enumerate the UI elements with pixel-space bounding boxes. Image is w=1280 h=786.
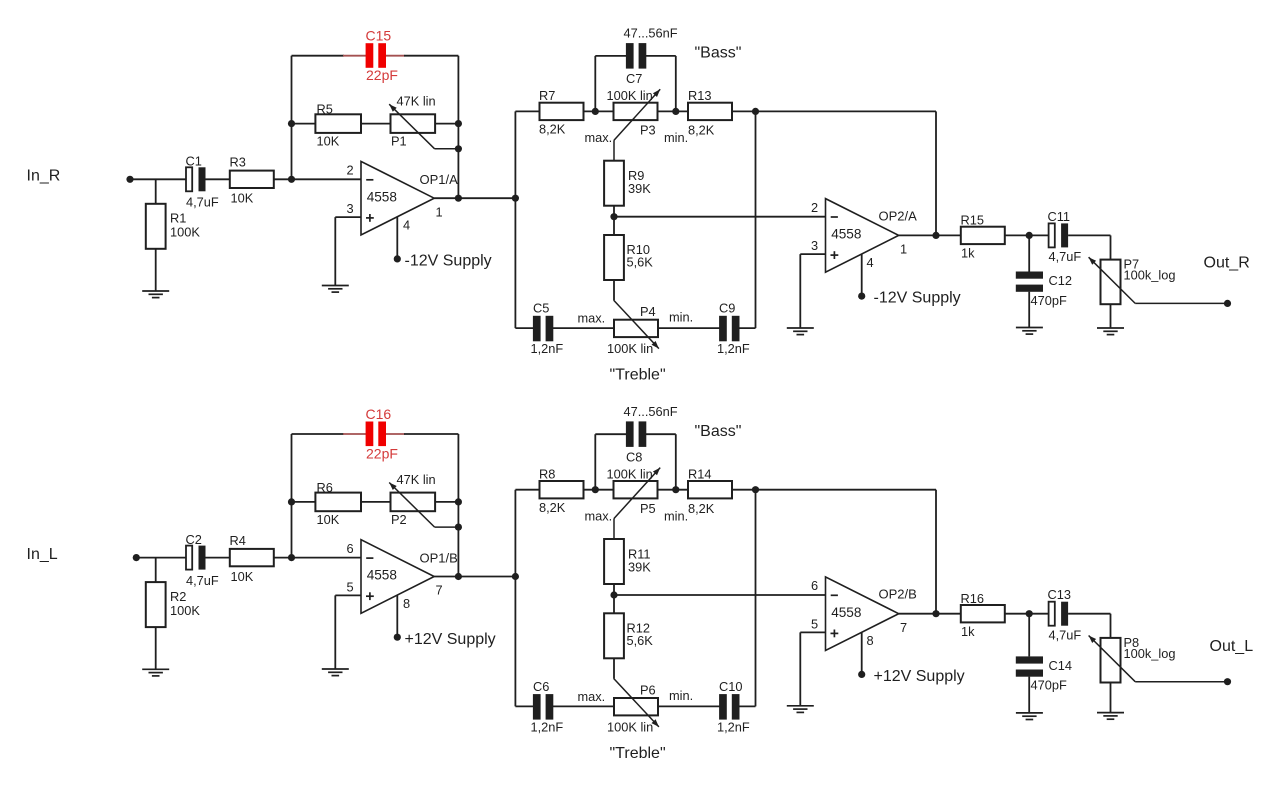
svg-text:4558: 4558 [831,227,861,242]
svg-text:8,2K: 8,2K [539,500,566,515]
svg-text:C9: C9 [719,301,735,316]
svg-text:4: 4 [867,255,874,270]
svg-text:R5: R5 [317,102,333,117]
svg-text:5,6K: 5,6K [627,255,654,270]
svg-text:4,7uF: 4,7uF [186,195,219,210]
svg-text:4558: 4558 [367,189,397,204]
svg-text:39K: 39K [628,559,651,574]
svg-text:100K lin: 100K lin [607,341,653,356]
svg-text:5: 5 [811,616,818,631]
svg-text:In_R: In_R [27,168,61,185]
svg-text:R8: R8 [539,466,555,481]
svg-text:47...56nF: 47...56nF [624,26,678,41]
svg-text:C12: C12 [1049,273,1072,288]
svg-text:OP2/A: OP2/A [879,208,918,223]
svg-text:22pF: 22pF [366,445,398,461]
svg-text:R4: R4 [230,533,246,548]
svg-text:min.: min. [664,508,688,523]
svg-text:3: 3 [347,201,354,216]
svg-text:22pF: 22pF [366,67,398,83]
svg-text:100K lin: 100K lin [607,466,653,481]
svg-text:"Bass": "Bass" [695,423,742,440]
svg-text:C14: C14 [1049,658,1072,673]
svg-text:1,2nF: 1,2nF [531,341,564,356]
svg-text:470pF: 470pF [1031,678,1067,693]
svg-text:4558: 4558 [831,605,861,620]
svg-text:+12V Supply: +12V Supply [874,668,965,685]
svg-text:39K: 39K [628,181,651,196]
svg-text:1,2nF: 1,2nF [717,719,750,734]
svg-text:8,2K: 8,2K [688,123,715,138]
svg-text:4,7uF: 4,7uF [186,573,219,588]
svg-text:4,7uF: 4,7uF [1049,249,1082,264]
svg-text:C10: C10 [719,679,742,694]
svg-text:8: 8 [867,633,874,648]
svg-text:Out_R: Out_R [1204,255,1250,272]
svg-text:R14: R14 [688,466,711,481]
svg-text:+12V Supply: +12V Supply [405,631,496,648]
svg-text:10K: 10K [317,512,340,527]
svg-text:8: 8 [403,596,410,611]
svg-text:100K lin: 100K lin [607,88,653,103]
svg-text:100k_log: 100k_log [1124,268,1176,283]
svg-text:47K lin: 47K lin [397,94,436,109]
svg-text:C15: C15 [366,28,392,44]
svg-text:R13: R13 [688,88,711,103]
svg-text:8,2K: 8,2K [688,501,715,516]
svg-text:10K: 10K [231,191,254,206]
svg-text:P6: P6 [640,682,656,697]
svg-text:10K: 10K [317,134,340,149]
svg-text:OP1/A: OP1/A [420,172,459,187]
svg-text:100K: 100K [170,225,200,240]
svg-text:C2: C2 [186,532,202,547]
svg-text:C7: C7 [626,71,642,86]
svg-text:R7: R7 [539,88,555,103]
svg-text:R16: R16 [961,591,984,606]
svg-text:max.: max. [578,689,606,704]
svg-text:10K: 10K [231,569,254,584]
svg-text:1,2nF: 1,2nF [531,719,564,734]
svg-text:470pF: 470pF [1031,293,1067,308]
svg-text:R6: R6 [317,480,333,495]
svg-text:47K lin: 47K lin [397,472,436,487]
svg-text:"Treble": "Treble" [610,745,666,762]
svg-text:47...56nF: 47...56nF [624,404,678,419]
svg-text:max.: max. [585,130,613,145]
svg-text:max.: max. [585,508,613,523]
svg-text:8,2K: 8,2K [539,122,566,137]
svg-text:1k: 1k [961,246,975,261]
svg-text:R15: R15 [961,213,984,228]
svg-text:7: 7 [436,583,443,598]
svg-text:2: 2 [811,200,818,215]
svg-text:4: 4 [403,218,410,233]
svg-text:100K lin: 100K lin [607,719,653,734]
svg-text:In_L: In_L [27,546,58,563]
svg-text:P1: P1 [391,134,407,149]
svg-text:5: 5 [347,579,354,594]
svg-text:7: 7 [900,620,907,635]
svg-text:1: 1 [436,204,443,219]
svg-text:C1: C1 [186,154,202,169]
svg-text:P3: P3 [640,123,656,138]
svg-text:3: 3 [811,238,818,253]
svg-text:-12V Supply: -12V Supply [874,290,961,307]
svg-text:1: 1 [900,242,907,257]
svg-text:min.: min. [664,130,688,145]
svg-text:4558: 4558 [367,568,397,583]
svg-text:1,2nF: 1,2nF [717,341,750,356]
svg-text:P4: P4 [640,304,656,319]
svg-text:C16: C16 [366,406,392,422]
svg-text:C8: C8 [626,449,642,464]
svg-text:5,6K: 5,6K [627,633,654,648]
svg-text:R3: R3 [230,155,246,170]
svg-text:-12V Supply: -12V Supply [405,253,492,270]
svg-text:P5: P5 [640,501,656,516]
svg-text:P2: P2 [391,512,407,527]
svg-text:OP2/B: OP2/B [879,587,917,602]
svg-text:1k: 1k [961,624,975,639]
svg-text:min.: min. [669,310,693,325]
svg-text:"Treble": "Treble" [610,367,666,384]
svg-text:100K: 100K [170,603,200,618]
svg-text:C5: C5 [533,301,549,316]
svg-text:R2: R2 [170,589,186,604]
svg-text:C6: C6 [533,679,549,694]
svg-text:C13: C13 [1048,587,1071,602]
svg-text:C11: C11 [1048,209,1071,224]
svg-text:6: 6 [347,541,354,556]
svg-text:6: 6 [811,578,818,593]
svg-text:R1: R1 [170,211,186,226]
svg-text:2: 2 [347,163,354,178]
svg-text:min.: min. [669,688,693,703]
svg-text:OP1/B: OP1/B [420,550,458,565]
svg-text:max.: max. [578,311,606,326]
svg-text:4,7uF: 4,7uF [1049,627,1082,642]
svg-text:Out_L: Out_L [1210,638,1254,655]
svg-text:100k_log: 100k_log [1124,646,1176,661]
svg-text:"Bass": "Bass" [695,45,742,62]
